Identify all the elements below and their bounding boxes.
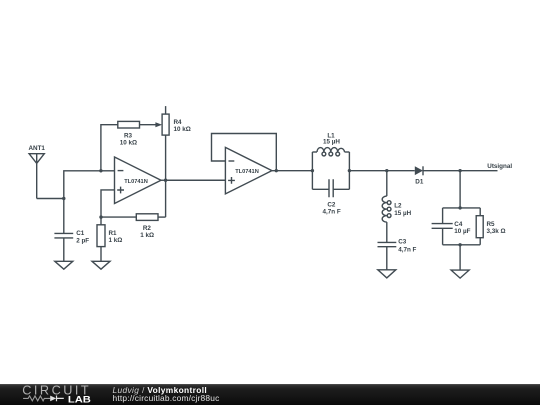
RC tank right vertical to R5 bbox=[479, 208, 481, 216]
wire antenna to node A bbox=[37, 198, 64, 200]
tank top wire to L1 bbox=[312, 151, 317, 153]
svg-text:4,7n F: 4,7n F bbox=[398, 247, 416, 254]
ground below C3 bbox=[378, 270, 396, 278]
node F junction (tank left) bbox=[311, 169, 314, 172]
potentiometer R4 labels bbox=[174, 119, 191, 133]
resistor R3 labels bbox=[120, 133, 137, 147]
svg-text:C2: C2 bbox=[327, 201, 336, 208]
wire op-amp U2 feedback loop bbox=[212, 134, 277, 171]
svg-text:10 kΩ: 10 kΩ bbox=[120, 140, 137, 147]
svg-text:R5: R5 bbox=[487, 221, 496, 228]
net label Utsignal bbox=[487, 163, 512, 170]
logo diode bbox=[50, 396, 56, 402]
svg-text:D1: D1 bbox=[415, 179, 424, 186]
resistor R3 bbox=[118, 121, 140, 128]
svg-text:R4: R4 bbox=[174, 119, 183, 126]
node G junction (tank right) bbox=[348, 169, 351, 172]
antenna ANT1 label bbox=[28, 145, 45, 152]
svg-text:3,3k Ω: 3,3k Ω bbox=[487, 228, 506, 235]
wire R3 to R4 wiper arrow bbox=[140, 124, 157, 126]
node H junction (L2 top) bbox=[385, 169, 388, 172]
capacitor C2 labels bbox=[322, 201, 340, 215]
svg-text:LAB: LAB bbox=[68, 395, 92, 405]
capacitor C2 bbox=[329, 179, 333, 197]
wire R2 to output branch bbox=[158, 216, 166, 218]
wire R5 to tank bottom bbox=[479, 238, 481, 245]
svg-text:R3: R3 bbox=[124, 133, 133, 140]
resistor R2 labels bbox=[140, 225, 154, 239]
capacitor C4 bbox=[432, 224, 453, 245]
svg-text:L2: L2 bbox=[394, 203, 402, 210]
capacitor C3 labels bbox=[398, 239, 416, 254]
op-amp U1 triangle bbox=[115, 157, 162, 204]
wire L2 to C3 bbox=[386, 222, 388, 242]
wire node A up to input net bbox=[64, 171, 101, 199]
wire diode D1 to output node bbox=[423, 170, 460, 172]
op-amp U2 triangle bbox=[225, 147, 272, 194]
svg-text:C1: C1 bbox=[76, 230, 85, 237]
svg-text:C3: C3 bbox=[398, 239, 407, 246]
svg-text:1 kΩ: 1 kΩ bbox=[109, 237, 123, 244]
wire op-amp U1 output bbox=[161, 179, 166, 181]
tank bottom wire C2 to right bbox=[333, 188, 349, 190]
RC tank left vertical to C4 bbox=[442, 208, 444, 224]
ground below C1 bbox=[55, 261, 73, 269]
potentiometer R4 wiper arrow bbox=[155, 122, 162, 127]
antenna ANT1 bbox=[29, 154, 44, 199]
node J junction (RC tank top) bbox=[458, 206, 461, 209]
resistor R1 bbox=[97, 225, 105, 247]
wire node H down to L2 bbox=[386, 171, 388, 196]
svg-text:Utsignal: Utsignal bbox=[487, 163, 512, 170]
footer title text bbox=[113, 386, 220, 403]
svg-text:R2: R2 bbox=[143, 225, 152, 232]
resistor R5 bbox=[476, 216, 483, 238]
diode D1 cathode bar bbox=[422, 166, 424, 175]
capacitor C4 labels bbox=[454, 221, 470, 235]
RC tank bottom wire bbox=[443, 244, 481, 246]
svg-text:C4: C4 bbox=[454, 221, 463, 228]
potentiometer R4 body bbox=[162, 114, 169, 135]
wire node B up to R3 bbox=[101, 125, 118, 171]
ground below R1 bbox=[92, 261, 110, 269]
svg-text:TL0741N: TL0741N bbox=[235, 169, 259, 175]
inductor L2 bbox=[382, 196, 391, 222]
wire node I down to RC tank bbox=[459, 171, 461, 208]
resistor R5 labels bbox=[487, 221, 506, 235]
wire op-amp U2 output to tank bbox=[272, 170, 313, 172]
capacitor C1 value labels bbox=[76, 230, 89, 244]
op-amp U1 plus sign bbox=[117, 187, 124, 194]
wire node H to diode D1 bbox=[387, 170, 415, 172]
node B junction (inverting input net) bbox=[99, 169, 102, 172]
tank bottom wire to C2 bbox=[312, 188, 329, 190]
svg-text:15 µH: 15 µH bbox=[323, 139, 340, 146]
node K junction (RC tank bottom) bbox=[458, 243, 461, 246]
node I junction (output node) bbox=[458, 169, 461, 172]
node A junction bbox=[62, 197, 65, 200]
node D junction (op-amp U1 output) bbox=[164, 179, 167, 182]
wire stage1 to stage2 bbox=[166, 179, 226, 181]
potentiometer R4 top stub bbox=[165, 106, 167, 114]
svg-text:TL0741N: TL0741N bbox=[124, 179, 148, 185]
ground below RC tank bbox=[451, 270, 469, 278]
tank right vertical wire bbox=[348, 152, 350, 189]
potentiometer R4 bottom wire to output node bbox=[165, 135, 167, 217]
wire output terminal Utsignal bbox=[460, 170, 497, 172]
wire tank to L2 node bbox=[349, 170, 386, 172]
op-amp U2 minus sign bbox=[229, 160, 235, 162]
wire node A down to C1 bbox=[63, 199, 65, 234]
svg-text:4,7n F: 4,7n F bbox=[322, 209, 340, 216]
wire node C to R2 bbox=[101, 216, 136, 218]
op-amp U2 label TL0741N bbox=[235, 169, 259, 175]
tank left vertical wire bbox=[311, 152, 313, 189]
diode D1 label bbox=[415, 179, 424, 186]
logo resistor zigzag bbox=[23, 396, 50, 401]
wire R1 to ground bbox=[100, 247, 102, 262]
wire node K to ground bbox=[459, 245, 461, 270]
tank top wire L1 to right bbox=[345, 151, 350, 153]
wire op-amp U1 plus input bbox=[101, 190, 115, 217]
CircuitLab logo bbox=[21, 384, 116, 405]
svg-text:ANT1: ANT1 bbox=[28, 145, 45, 152]
op-amp U2 plus sign bbox=[228, 177, 235, 184]
svg-text:2 pF: 2 pF bbox=[76, 238, 89, 245]
capacitor C3 bbox=[378, 242, 397, 269]
op-amp U1 minus sign bbox=[118, 170, 124, 172]
footer bar bbox=[0, 384, 540, 405]
resistor R1 labels bbox=[109, 230, 123, 244]
inductor L2 labels bbox=[394, 203, 411, 217]
node C junction (feedback node) bbox=[99, 215, 102, 218]
wire node B to op-amp minus input bbox=[101, 170, 115, 172]
op-amp U1 label TL0741N bbox=[124, 179, 148, 185]
inductor L1 labels bbox=[323, 133, 340, 146]
svg-text:10 µF: 10 µF bbox=[454, 228, 470, 235]
svg-text:1 kΩ: 1 kΩ bbox=[140, 232, 154, 239]
svg-text:R1: R1 bbox=[109, 230, 118, 237]
inductor L1 bbox=[317, 148, 345, 156]
svg-text:15 µH: 15 µH bbox=[394, 210, 411, 217]
resistor R1 stub bbox=[100, 217, 102, 225]
resistor R2 bbox=[136, 214, 158, 221]
node E junction (op-amp U2 output) bbox=[275, 169, 278, 172]
RC tank top wire bbox=[443, 207, 481, 209]
capacitor C1 bbox=[54, 233, 73, 261]
svg-text:10 kΩ: 10 kΩ bbox=[174, 126, 191, 133]
diode D1 bbox=[415, 166, 423, 175]
